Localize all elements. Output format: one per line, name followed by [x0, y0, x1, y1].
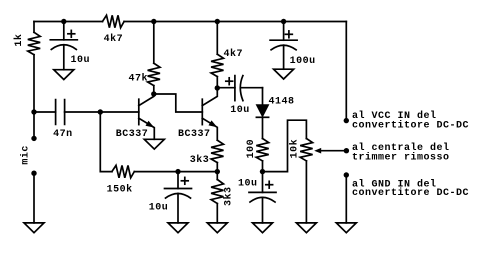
node terminal centrale — [344, 148, 349, 153]
wire diode to R 100 — [262, 117, 264, 138]
wire R 100 to junction — [262, 161, 264, 172]
svg-text:100: 100 — [246, 139, 257, 159]
transistor Q1 BC337 — [139, 94, 155, 139]
node terminal VCC — [344, 118, 349, 123]
Q1 emitter diagonal — [139, 118, 155, 139]
capacitor C 10u coupling (horizontal, polarized) — [217, 76, 262, 101]
svg-text:3k3: 3k3 — [190, 154, 210, 166]
wire 47k top — [153, 22, 155, 64]
plus sign of C 10u coupling — [226, 78, 233, 85]
svg-text:10u: 10u — [238, 178, 258, 189]
svg-text:4k7: 4k7 — [104, 33, 124, 45]
svg-text:trimmer rimosso: trimmer rimosso — [352, 151, 450, 163]
node Q1 collector junction — [151, 91, 156, 96]
node Q2 collector junction — [215, 85, 220, 90]
ground below Q1 emitter — [144, 139, 164, 149]
svg-text:convertitore DC-DC: convertitore DC-DC — [352, 119, 469, 131]
wire right rail down to VCC terminal — [345, 22, 347, 121]
wire top rail left segment — [34, 21, 103, 23]
svg-text:47n: 47n — [53, 129, 73, 140]
wire 3k3 lower to ground — [216, 204, 218, 223]
svg-text:4k7: 4k7 — [224, 48, 244, 60]
node junction top rail / C 100u — [281, 19, 286, 24]
node mic bottom terminal — [31, 171, 36, 176]
svg-text:10u: 10u — [230, 105, 250, 116]
wire 150k to emitter node — [134, 171, 217, 173]
wire left rail below 1k — [33, 55, 35, 139]
plus sign of C 100u — [286, 31, 293, 38]
resistor R 10k (trimmer) — [300, 139, 312, 161]
node terminal GND — [344, 172, 349, 177]
wire top rail right segment — [124, 21, 346, 23]
node junction R100 / C10u / 10k branch — [260, 169, 265, 174]
wire left rail top — [33, 22, 35, 33]
trimmer wiper arrow — [314, 148, 346, 154]
wire 3k3 upper to junction — [216, 163, 218, 172]
wire 4k7v bottom to Q2 collector node — [216, 77, 218, 88]
svg-text:47k: 47k — [129, 72, 149, 84]
svg-text:100u: 100u — [290, 56, 316, 67]
resistor R 4k7 vertical — [211, 54, 223, 76]
capacitor C 100u (polarized) — [270, 22, 297, 70]
svg-text:mic: mic — [20, 145, 32, 165]
node junction 47n / 1k / mic rail — [31, 109, 36, 114]
resistor R 3k3 upper (Q2 emitter) — [211, 140, 223, 162]
node junction top rail / R 4k7 vertical — [215, 19, 220, 24]
Q2 emitter diagonal — [202, 118, 217, 140]
ground below C 10u top-left — [54, 70, 74, 80]
capacitor C 47n (input) — [34, 100, 139, 125]
svg-text:10u: 10u — [71, 55, 91, 66]
ground below C 10u bottom-right — [253, 223, 273, 233]
svg-text:10k: 10k — [289, 139, 301, 159]
wire junction to 10k branch (box path) — [263, 120, 307, 171]
ground below 3k3 lower — [207, 223, 227, 233]
ground below 10k — [296, 223, 316, 233]
Q1 emitter arrow — [146, 121, 155, 128]
ground below mic — [24, 223, 44, 233]
resistor R 150k — [112, 165, 134, 177]
wire link Q1 collector to Q2 base — [154, 94, 203, 112]
svg-text:4148: 4148 — [269, 97, 295, 108]
svg-text:10u: 10u — [149, 202, 169, 213]
Q1 base bar — [138, 99, 140, 124]
diode D 4148 — [256, 105, 268, 118]
ground below C 100u — [274, 69, 294, 79]
plus sign of C 10u top-left — [68, 30, 75, 37]
wire 47k bottom to Q1 collector node — [153, 86, 155, 94]
wire GND terminal to ground — [345, 175, 347, 223]
svg-text:150k: 150k — [107, 183, 133, 195]
wire 10k to ground — [305, 161, 307, 223]
svg-text:convertitore DC-DC: convertitore DC-DC — [352, 187, 469, 199]
wire 4k7v top — [216, 22, 218, 55]
capacitor C 10u top-left (polarized) — [50, 22, 77, 70]
svg-text:BC337: BC337 — [116, 129, 149, 140]
Q2 emitter arrow — [209, 120, 218, 127]
svg-text:1k: 1k — [13, 34, 25, 47]
plus sign of C 10u bottom-left — [181, 177, 188, 184]
svg-text:BC337: BC337 — [178, 129, 211, 140]
resistor R 3k3 lower — [211, 180, 223, 204]
ground below C 10u bottom-left — [168, 223, 188, 233]
wire junction to 3k3 lower — [216, 172, 218, 180]
node junction top rail / C 10u top-left — [61, 19, 66, 24]
plus sign of C 10u bottom-right — [266, 181, 273, 188]
wire cap to diode — [262, 88, 264, 106]
node junction base wire / 150k feedback — [98, 109, 103, 114]
node mic top terminal — [31, 136, 36, 141]
svg-text:3k3: 3k3 — [223, 186, 235, 206]
resistor R 4k7 horizontal — [103, 15, 125, 27]
capacitor C 10u bottom-left (polarized) — [165, 172, 192, 223]
wire mic bottom to ground — [33, 173, 35, 223]
wire 150k feedback vertical — [100, 112, 112, 172]
ground below GND terminal — [336, 223, 356, 233]
resistor R 100 — [256, 139, 268, 161]
node junction emitter resistors 3k3 — [215, 169, 220, 174]
node junction top rail / R 47k — [151, 19, 156, 24]
resistor R 47k — [148, 63, 160, 85]
Q2 base bar — [201, 99, 203, 124]
transistor Q2 BC337 — [202, 88, 217, 140]
Q2 collector diagonal — [202, 88, 217, 106]
node junction 150k / C 10u bottom-left — [175, 169, 180, 174]
capacitor C 10u bottom-right (polarized) — [249, 172, 276, 223]
resistor R 1k — [28, 32, 40, 54]
Q1 collector diagonal — [139, 94, 154, 106]
